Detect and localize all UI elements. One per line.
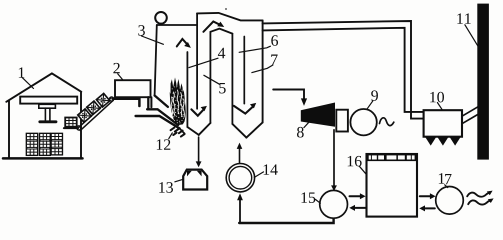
turbine 8 <box>301 103 335 127</box>
leader 1 <box>23 78 34 89</box>
leader 15 <box>315 199 320 203</box>
leader 8 <box>304 121 310 127</box>
flames <box>170 77 186 125</box>
leader 16 <box>359 166 366 175</box>
feeder chute step <box>113 99 140 106</box>
label 13 <box>159 182 173 193</box>
leader 13 <box>175 179 183 181</box>
grate channel top <box>147 109 178 125</box>
generator 9 <box>350 109 376 135</box>
leader 17 <box>445 185 448 188</box>
grate channel bottom <box>136 116 180 128</box>
coupling box <box>336 110 348 132</box>
waste pit A <box>27 134 38 156</box>
stack 11 <box>477 4 489 160</box>
crane trolley <box>39 104 56 122</box>
leader 6 <box>239 46 270 52</box>
label 6 <box>271 35 278 46</box>
heat exchanger 16 <box>367 154 418 217</box>
label 14 <box>264 164 278 174</box>
baffle peak <box>210 29 232 34</box>
fan 14 inner <box>229 166 252 189</box>
label 8 <box>297 127 304 138</box>
conveyor box a <box>78 109 92 123</box>
conveyor tail pulley <box>77 126 81 130</box>
generator wave <box>380 118 394 126</box>
furnace left wall <box>155 25 157 96</box>
baffle right leg <box>231 34 233 124</box>
pass2 down arrow <box>243 37 245 104</box>
ash drop arrow to 13 <box>198 137 200 162</box>
hopper1 V right <box>199 123 211 135</box>
exchanger tube row <box>367 154 418 161</box>
leader 10 <box>437 103 442 111</box>
furnace baffle wall <box>186 52 188 127</box>
hopper2 V left <box>232 124 246 138</box>
leader 11 <box>465 25 479 47</box>
cooling pump 17 <box>436 187 464 215</box>
waste pit B <box>40 134 50 156</box>
grab bucket <box>65 118 77 127</box>
duct to stack <box>462 106 479 123</box>
air arrow into hopper2 <box>239 148 241 163</box>
port circle on furnace top <box>155 12 167 24</box>
label 7 <box>271 55 277 65</box>
conveyor belt <box>78 98 113 131</box>
building 1 outline <box>6 73 81 157</box>
steam pipe to turbine <box>273 90 304 100</box>
waste pit C <box>51 134 62 155</box>
flue duct inner line <box>263 28 424 112</box>
conveyor head pulley <box>110 97 114 101</box>
leader 5 <box>204 75 220 84</box>
flame stipple <box>172 86 184 124</box>
arrow 16 to 15 <box>354 207 366 209</box>
label 3 <box>138 25 145 36</box>
label 17 <box>439 173 452 184</box>
speck <box>225 8 227 10</box>
label 11 <box>457 13 470 23</box>
label 16 <box>348 156 362 167</box>
label 12 <box>157 139 171 149</box>
label 5 <box>219 83 225 94</box>
leader 14 <box>254 172 263 178</box>
label 15 <box>301 192 315 203</box>
arrow 15 to 16 <box>350 195 361 197</box>
chute inner wall <box>147 97 149 108</box>
crane rail <box>20 97 77 104</box>
label 4 <box>218 48 225 58</box>
second pass roof <box>197 13 263 21</box>
container lid notch left <box>187 171 192 177</box>
hopper triangle c <box>450 137 461 146</box>
ash container 13 <box>183 170 207 190</box>
leader 12 <box>169 133 173 139</box>
leader 4 <box>189 58 218 67</box>
arrow over baffle <box>203 22 219 32</box>
pass wall with down arrow <box>196 13 198 108</box>
arrow 16 to 17 <box>420 195 431 197</box>
return pipe bottom <box>239 218 333 223</box>
flame texture <box>171 90 184 117</box>
hopper2 V right <box>246 122 262 137</box>
leader 2 <box>118 74 123 80</box>
leader 7 <box>252 65 273 73</box>
feed hopper 2 <box>115 80 151 97</box>
throat left wall <box>150 97 152 107</box>
container lid notch right <box>197 171 202 177</box>
cooling water waves <box>467 192 490 197</box>
leader 3 <box>142 36 164 44</box>
flue duct outer line <box>263 21 424 119</box>
hopper triangle b <box>437 137 448 146</box>
grate lower tail <box>180 128 185 133</box>
leader 9 <box>367 101 373 109</box>
conveyor box b <box>87 101 101 115</box>
building floor <box>3 157 83 160</box>
furnace throat slope <box>155 96 168 107</box>
label 10 <box>430 92 444 103</box>
exhaust pipe to 15 <box>333 130 335 186</box>
label 9 <box>371 90 378 101</box>
precipitator 10 <box>424 110 462 137</box>
arrow 17 to 16 <box>424 207 435 209</box>
furnace 3 top <box>157 24 197 26</box>
furnace flow chevron arrow <box>177 39 186 46</box>
boiler right wall <box>262 20 264 122</box>
label 2 <box>113 63 119 73</box>
hopper1 V left <box>187 127 198 135</box>
pipe into fan <box>239 200 241 224</box>
grate hatch 12 <box>171 128 185 137</box>
fan 14 outer <box>226 164 254 192</box>
bucket ledge <box>64 127 78 129</box>
conveyor box c <box>96 93 110 107</box>
label 1 <box>19 67 25 77</box>
baffle left leg <box>209 32 211 123</box>
condenser pump 15 <box>320 190 348 218</box>
hopper triangle a <box>425 137 436 146</box>
